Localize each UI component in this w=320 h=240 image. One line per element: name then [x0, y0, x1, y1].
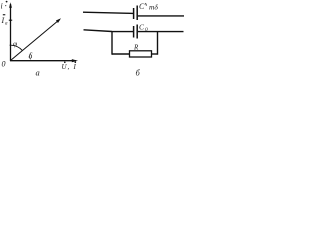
current vector I	[11, 20, 60, 61]
wire (top circuit, left lead)	[83, 12, 133, 13]
svg-text:i: i	[1, 2, 3, 11]
angle delta arc	[29, 54, 30, 60]
capacitor C tg-delta, left plate	[133, 8, 135, 19]
value label C tg-delta	[139, 2, 158, 12]
svg-text:R: R	[133, 44, 139, 52]
svg-text:а: а	[36, 68, 40, 78]
value label Ia on vertical axis	[1, 14, 9, 26]
wire (parallel circuit, left lead)	[84, 30, 113, 32]
horizontal axis (diagram a)	[10, 60, 76, 62]
wire (capacitor branch, left segment)	[112, 31, 133, 33]
vector arrowhead	[56, 18, 61, 23]
svg-text:б: б	[136, 68, 141, 78]
svg-text:,: ,	[68, 63, 70, 71]
capacitor C0, left plate	[133, 26, 135, 38]
wire (resistor branch, left segment)	[112, 53, 130, 55]
axis arrowhead (horizontal axis)	[72, 59, 78, 62]
resistor R body	[130, 51, 152, 57]
wire (right vertical branch junction)	[157, 31, 159, 55]
horizontal axis label U, I	[62, 62, 77, 71]
svg-text:I: I	[1, 16, 5, 25]
value label C0	[139, 23, 148, 34]
capacitor C0, right plate	[136, 25, 138, 39]
wire (capacitor branch, right segment)	[138, 31, 158, 33]
axis arrowhead (vertical axis)	[9, 2, 12, 8]
capacitor C tg-delta, right plate	[136, 6, 138, 21]
vertical current axis (diagram a)	[10, 4, 12, 61]
wire (resistor branch, right segment)	[152, 53, 158, 55]
svg-text:0: 0	[2, 60, 6, 69]
axis label i (top of vertical axis)	[1, 1, 8, 11]
wire (parallel circuit, right lead)	[158, 31, 184, 33]
svg-text:тδ: тδ	[149, 3, 158, 12]
tick mark for Ia on vertical axis	[9, 19, 12, 21]
wire (top circuit, right lead)	[138, 15, 184, 17]
angle phi arc	[10, 45, 23, 50]
wire (left vertical branch junction)	[111, 31, 113, 55]
svg-text:С: С	[139, 2, 145, 11]
